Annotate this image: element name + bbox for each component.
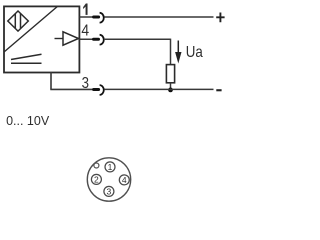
wire pin4 from box <box>79 38 98 40</box>
svg-text:4: 4 <box>81 23 89 40</box>
wire pin3 horizontal to connector <box>50 88 99 90</box>
connector socket arc 3 <box>100 85 104 95</box>
plus terminal <box>216 13 224 23</box>
keying notch circle <box>94 163 99 168</box>
wire pin3 to minus <box>104 88 213 90</box>
connector pin stub 4 <box>94 38 99 41</box>
load resistor RL <box>166 65 174 83</box>
wire pin1 to plus <box>104 16 213 18</box>
connector pin stub 3 <box>94 88 99 91</box>
wire resistor to node <box>170 83 172 90</box>
connector socket arc 1 <box>100 13 104 23</box>
amplifier triangle <box>63 32 79 45</box>
wire pin3 drop from box bottom <box>50 72 52 89</box>
svg-text:1: 1 <box>108 162 113 172</box>
wire pin4 down to resistor <box>170 39 172 65</box>
sensor body box U1 <box>4 6 79 72</box>
svg-text:3: 3 <box>82 75 89 92</box>
diamond inner bar left <box>14 14 16 29</box>
svg-text:2: 2 <box>94 175 99 185</box>
inductive sensing element (diamond) <box>8 11 29 31</box>
analog output symbol (ramp lines) <box>11 54 42 59</box>
pin 2 circle <box>91 174 101 184</box>
pin 1 circle <box>105 162 115 172</box>
diagonal divider line <box>4 6 58 52</box>
svg-text:0... 10V: 0... 10V <box>6 114 50 128</box>
svg-text:3: 3 <box>107 187 112 197</box>
M12 connector face outline <box>87 158 130 201</box>
svg-text:4: 4 <box>122 175 127 185</box>
Ua arrow <box>177 41 179 54</box>
connector socket arc 4 <box>100 35 104 45</box>
junction node dot <box>168 88 173 93</box>
svg-text:Ua: Ua <box>186 44 204 61</box>
wire pin4 horizontal <box>104 38 171 40</box>
wire pin1 from box <box>79 16 99 18</box>
pin 4 circle <box>119 175 129 185</box>
connector pin stub 1 <box>94 16 99 19</box>
amplifier triangle input wire <box>55 38 64 40</box>
diamond inner bar right <box>20 14 22 29</box>
label pin 1 <box>83 4 87 15</box>
minus terminal <box>216 89 221 91</box>
pin 3 circle <box>104 186 114 196</box>
